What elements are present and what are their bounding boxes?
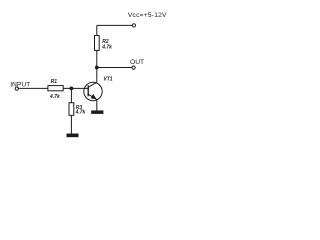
terminal OUT [132, 66, 135, 69]
svg-text:4.7k: 4.7k [101, 45, 112, 51]
wire Vcc to R2 top [96, 25, 98, 35]
node junction dot R1/R3/base [70, 87, 74, 91]
wire R2 bottom to collector node [96, 50, 98, 67]
svg-text:OUT: OUT [130, 59, 144, 66]
transistor VT1 emitter lead [88, 94, 97, 99]
wire INPUT to R1 [18, 87, 48, 89]
svg-text:4.7k: 4.7k [75, 109, 86, 115]
wire Vcc horizontal [97, 24, 132, 26]
transistor VT1 base bar [87, 85, 89, 96]
resistor R1 [48, 86, 63, 91]
resistor R2 [95, 36, 100, 51]
svg-text:VT1: VT1 [103, 77, 112, 83]
resistor R3 [69, 103, 74, 116]
wire base node to R3 top [70, 88, 72, 102]
transistor Q1 VT1 body [84, 82, 102, 100]
wire OUT [97, 67, 132, 69]
transistor VT1 emitter arrow [91, 94, 97, 99]
wire collector node down to transistor collector [96, 68, 98, 83]
terminal Vcc [132, 24, 135, 27]
svg-text:Vcc=+5-12V: Vcc=+5-12V [128, 12, 167, 19]
svg-text:4.7k: 4.7k [49, 94, 60, 100]
wire R3 bottom to ground [70, 115, 72, 133]
ground (R3) [67, 134, 79, 138]
wire emitter to ground [96, 100, 98, 111]
terminal INPUT [15, 87, 18, 90]
wire R1 to base [63, 87, 88, 89]
svg-text:R1: R1 [51, 79, 58, 85]
ground (emitter) [91, 110, 103, 114]
node junction dot collector/OUT [95, 66, 99, 70]
svg-text:INPUT: INPUT [10, 81, 30, 88]
transistor VT1 collector lead [88, 82, 97, 87]
